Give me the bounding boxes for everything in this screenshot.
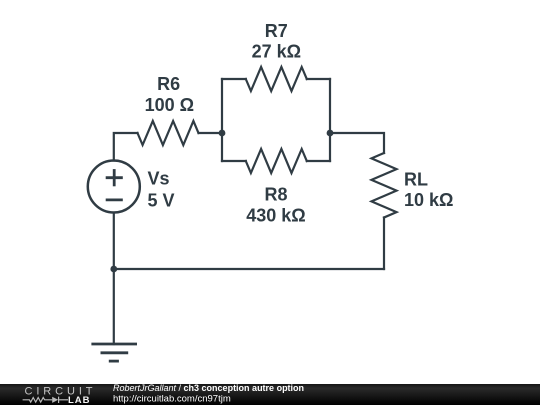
resistor R7	[246, 67, 307, 91]
ground	[91, 344, 137, 361]
resistor RL	[372, 153, 397, 218]
svg-text:430 kΩ: 430 kΩ	[246, 205, 305, 225]
svg-text:10 kΩ: 10 kΩ	[404, 190, 453, 210]
resistor R8	[246, 149, 307, 173]
svg-text:R7: R7	[265, 21, 288, 41]
wire left branch vertical	[221, 79, 223, 161]
wire bottom return	[114, 268, 384, 270]
footer bar	[0, 384, 540, 405]
wire bottom branch left	[222, 160, 246, 162]
svg-text:5 V: 5 V	[148, 191, 175, 211]
svg-text:27 kΩ: 27 kΩ	[252, 41, 301, 61]
wire Vs top to R6	[114, 133, 138, 161]
voltage source Vs	[88, 161, 140, 213]
svg-text:LAB: LAB	[68, 395, 91, 405]
wire R6 to node A	[199, 132, 223, 134]
svg-text:R6: R6	[157, 74, 180, 94]
svg-text:Vs: Vs	[148, 168, 170, 188]
wire node B to RL	[330, 133, 384, 153]
node B junction	[327, 130, 334, 137]
wire top branch left	[222, 78, 246, 80]
wire ground lead	[113, 269, 115, 344]
wire right branch vertical	[329, 79, 331, 161]
circuitlab logo symbol	[23, 397, 68, 403]
resistor R6	[138, 121, 199, 145]
node A junction	[219, 130, 226, 137]
wire RL bottom	[383, 218, 385, 270]
node C junction	[110, 266, 117, 273]
svg-text:R8: R8	[264, 185, 287, 205]
svg-text:RobertJrGallant / ch3 concepti: RobertJrGallant / ch3 conception autre o…	[113, 384, 304, 393]
wire top branch right	[307, 78, 330, 80]
svg-text:100 Ω: 100 Ω	[145, 95, 194, 115]
svg-text:RL: RL	[404, 170, 428, 190]
wire Vs bottom	[113, 213, 115, 269]
svg-text:http://circuitlab.com/cn97tjm: http://circuitlab.com/cn97tjm	[113, 394, 231, 405]
wire bottom branch right	[307, 160, 330, 162]
